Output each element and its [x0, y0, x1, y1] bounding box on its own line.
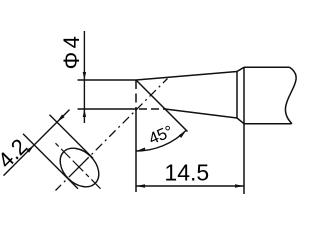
arrow arc bottom end (at 136,151 pointing ccw/left): [136, 148, 145, 152]
arrow phi4 top (points down to y=80): [83, 72, 86, 80]
arrow 4.2 lower (tip at 34.15,144.95 body extends down-left outside): [27, 145, 35, 153]
break S-curve: [285, 67, 296, 123]
hidden dashed vertical below apex: [135, 80, 137, 108]
wire bottom extension dashed to bevel corner: [139, 108, 166, 110]
centerline 45deg projection dash-dot: [56, 79, 168, 191]
bevel edge line 45deg: [136, 80, 188, 132]
aux major centerline dash-dot: [56, 143, 103, 190]
45deg arc: [136, 130, 186, 151]
svg-text:Φ4: Φ4: [59, 33, 84, 70]
vertical extension line apex to 14.5 dim: [135, 108, 137, 192]
shaft bottom edge: [244, 123, 292, 125]
cone end face: [236, 72, 238, 119]
4.2 extension line NE tangent: [50, 115, 94, 159]
svg-text:4.2: 4.2: [0, 134, 32, 173]
shoulder top: [237, 67, 244, 71]
phi4 dimension line vertical: [83, 31, 85, 123]
shoulder bottom: [237, 118, 244, 124]
4.2 extension line SW tangent: [23, 134, 78, 189]
arrow arc right end (at 186.2,130.2 pointing up-right): [179, 130, 187, 138]
arrow phi4 bottom (points up to y=109): [83, 109, 86, 117]
arrow 4.2 upper (tip at 56.95,122.15 body extends up-right outside): [57, 115, 65, 123]
svg-text:14.5: 14.5: [164, 160, 209, 186]
svg-text:45°: 45°: [146, 123, 175, 149]
14.5 dimension line: [136, 185, 244, 187]
cone bottom edge: [165, 109, 237, 118]
shaft front face and 14.5 right extension line: [243, 67, 245, 194]
cone top edge: [136, 72, 237, 81]
wire bottom extension line solid: [78, 108, 138, 110]
aux ellipse: [53, 141, 107, 195]
wire top extension line y=80: [78, 79, 137, 81]
4.2 dimension line: [4, 110, 70, 176]
arrow 14.5 left: [136, 184, 145, 187]
shaft top edge: [244, 66, 290, 68]
arrow 14.5 right: [235, 184, 244, 187]
